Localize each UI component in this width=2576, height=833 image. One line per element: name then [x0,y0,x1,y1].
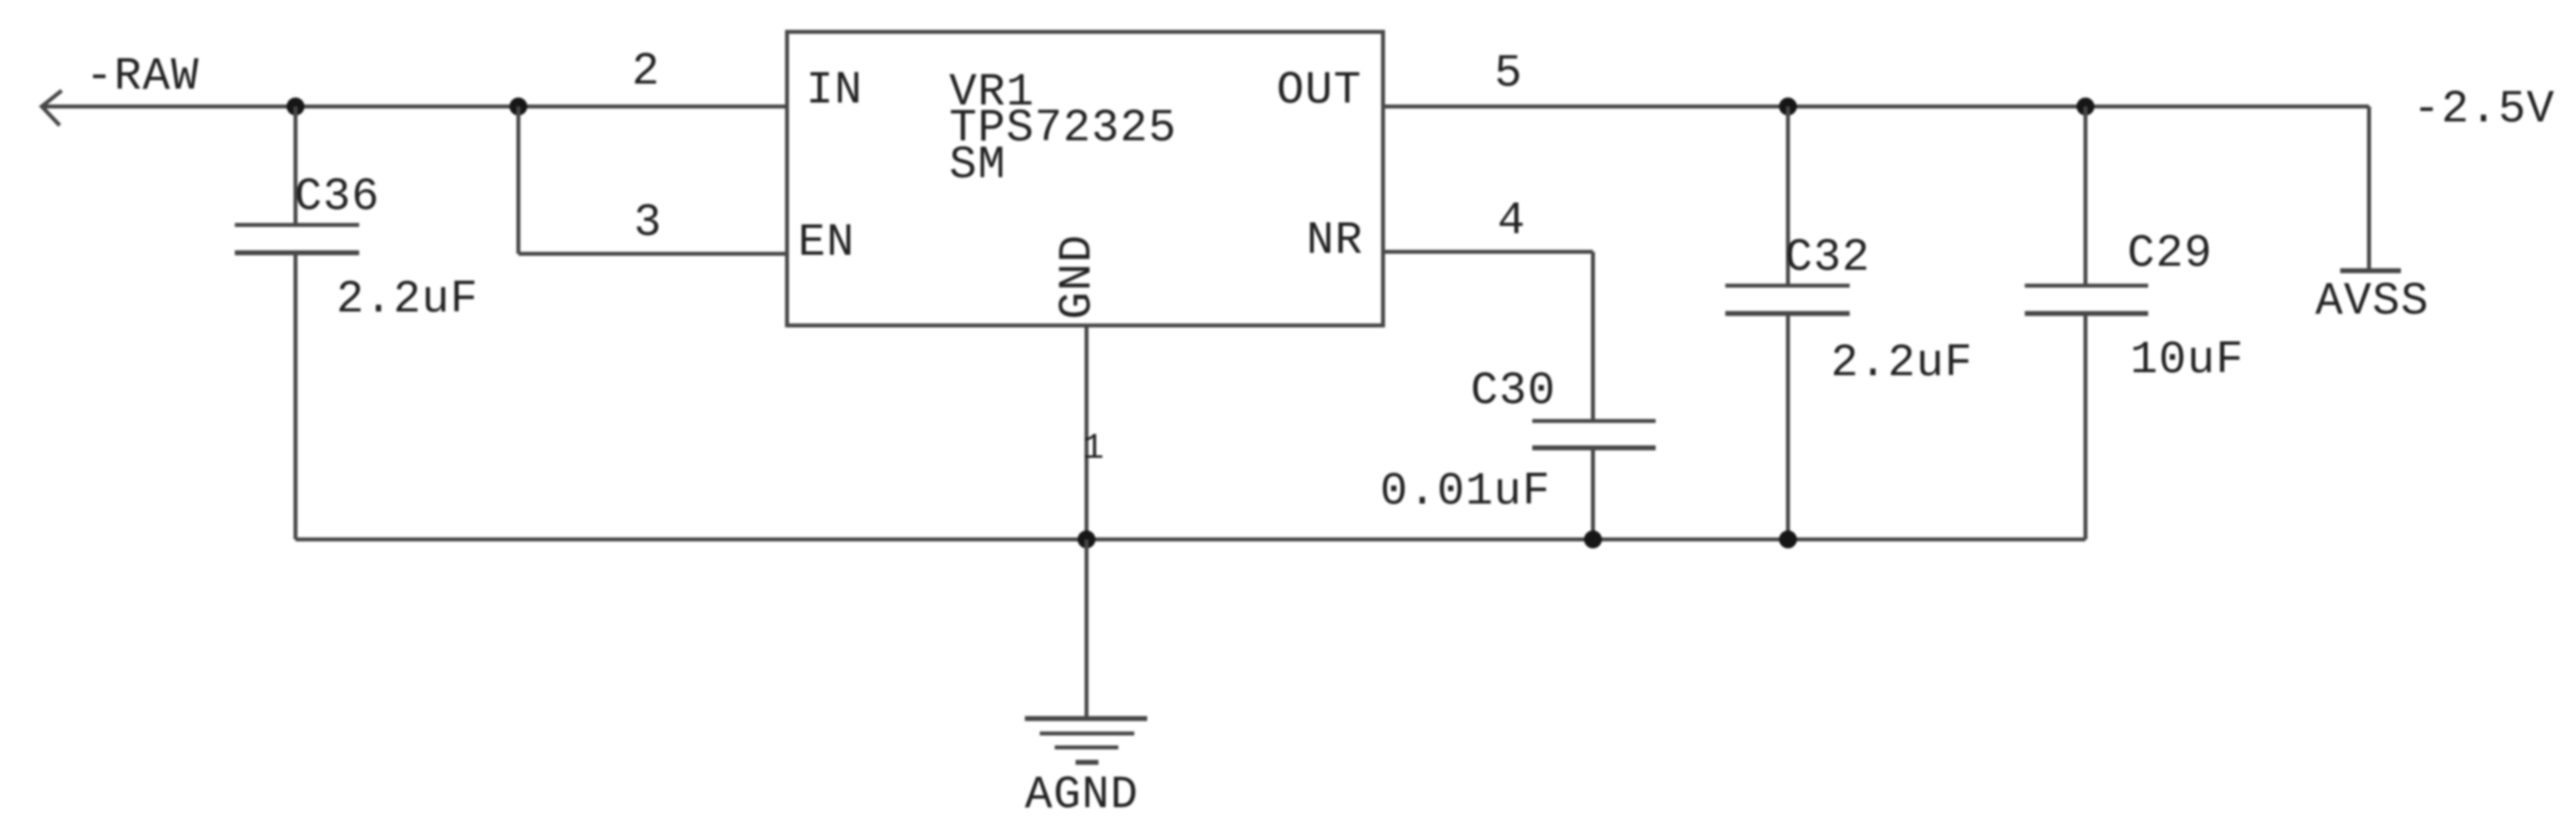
ground: AVSS bar [2340,269,2401,274]
wire: C32 bottom lead [1786,313,1790,539]
svg-text:OUT: OUT [1277,65,1362,116]
part number TPS72325 [949,103,1177,154]
ground label AGND [1025,769,1138,821]
wire: GND pin of VR1 down to rail [1085,325,1089,539]
node G: junction C32/rail [1779,530,1797,548]
arrow head of -RAW off-page connector [42,91,62,125]
value 0.01uF of C30 [1380,466,1551,518]
wire: -RAW top rail (arrow tip to IC IN pin) [42,104,787,108]
pin label OUT [1277,65,1362,116]
pin number 4 (NR) [1497,195,1526,247]
wire: C29 bottom lead [2083,313,2087,539]
svg-text:EN: EN [798,217,855,269]
capacitor label C29 [2127,228,2213,280]
pin label GND (rotated) [1052,234,1103,319]
svg-text:SM: SM [949,139,1006,191]
svg-text:C32: C32 [1785,232,1871,284]
svg-text:4: 4 [1497,195,1526,247]
wire: drop to AVSS [2367,106,2371,271]
svg-text:C30: C30 [1471,365,1556,417]
wire: NR vertical to C30 [1591,252,1595,421]
capacitor C29 [2025,286,2148,313]
pin number 5 (OUT) [1494,48,1523,100]
ground label AVSS [2315,276,2429,327]
node D: junction OUT/C29 [2077,98,2094,115]
pin number 2 (IN) [632,46,661,98]
package SM [949,139,1006,191]
pin label NR [1306,215,1363,267]
svg-text:2: 2 [632,46,661,98]
pin number 1 (GND, rotated, faint) [1083,428,1105,469]
value 2.2uF of C32 [1831,337,1973,389]
wire: C30 bottom lead [1591,448,1595,539]
capacitor C32 [1725,286,1850,313]
node A: junction -RAW/C36 [287,98,304,115]
wire: C36 bottom lead [294,253,297,539]
capacitor C36 [235,225,359,253]
wire: rail down to AGND symbol [1085,539,1089,719]
op-amp U1: regulator VR1 box outline [787,32,1383,325]
svg-text:-2.5V: -2.5V [2413,84,2555,135]
svg-text:5: 5 [1494,48,1523,100]
wire: C36 top lead [294,106,297,225]
wire: EN horizontal to pin 3 [518,252,787,256]
node B: junction -RAW/EN branch [509,98,527,115]
capacitor label C30 [1471,365,1556,417]
capacitor label C36 [295,171,380,223]
svg-text:GND: GND [1052,234,1103,319]
pin number 3 (EN) [634,197,663,249]
svg-text:C29: C29 [2127,228,2213,280]
node E: junction GND/rail [1078,530,1095,548]
pin label IN [806,65,863,116]
reference designator VR1 [949,67,1035,118]
value 10uF of C29 [2130,334,2244,386]
node F: junction C30/rail [1584,530,1602,548]
svg-text:1: 1 [1083,428,1105,469]
svg-text:C36: C36 [295,171,380,223]
wire: NR horizontal pin 4 [1383,250,1593,254]
value 2.2uF of C36 [336,274,479,325]
net label -2.5V [2413,84,2555,135]
wire: C29 top lead [2083,106,2087,286]
wire: C32 top lead [1786,106,1790,286]
capacitor label C32 [1785,232,1871,284]
capacitor C30 [1532,421,1656,448]
wire: OUT rail to -2.5V [1383,104,2369,108]
svg-text:AVSS: AVSS [2315,276,2429,327]
svg-text:NR: NR [1306,215,1363,267]
svg-text:10uF: 10uF [2130,334,2244,386]
wire: EN branch vertical [516,106,520,254]
net label -RAW [86,51,199,103]
wire: bottom ground rail [296,537,2085,541]
svg-text:0.01uF: 0.01uF [1380,466,1551,518]
pin label EN [798,217,855,269]
svg-text:-RAW: -RAW [86,51,199,103]
svg-text:2.2uF: 2.2uF [1831,337,1973,389]
svg-text:IN: IN [806,65,863,116]
ground: AGND symbol bars [1025,719,1147,762]
svg-text:2.2uF: 2.2uF [336,274,479,325]
node C: junction OUT/C32 [1779,98,1797,115]
svg-text:3: 3 [634,197,663,249]
svg-text:AGND: AGND [1025,769,1138,821]
